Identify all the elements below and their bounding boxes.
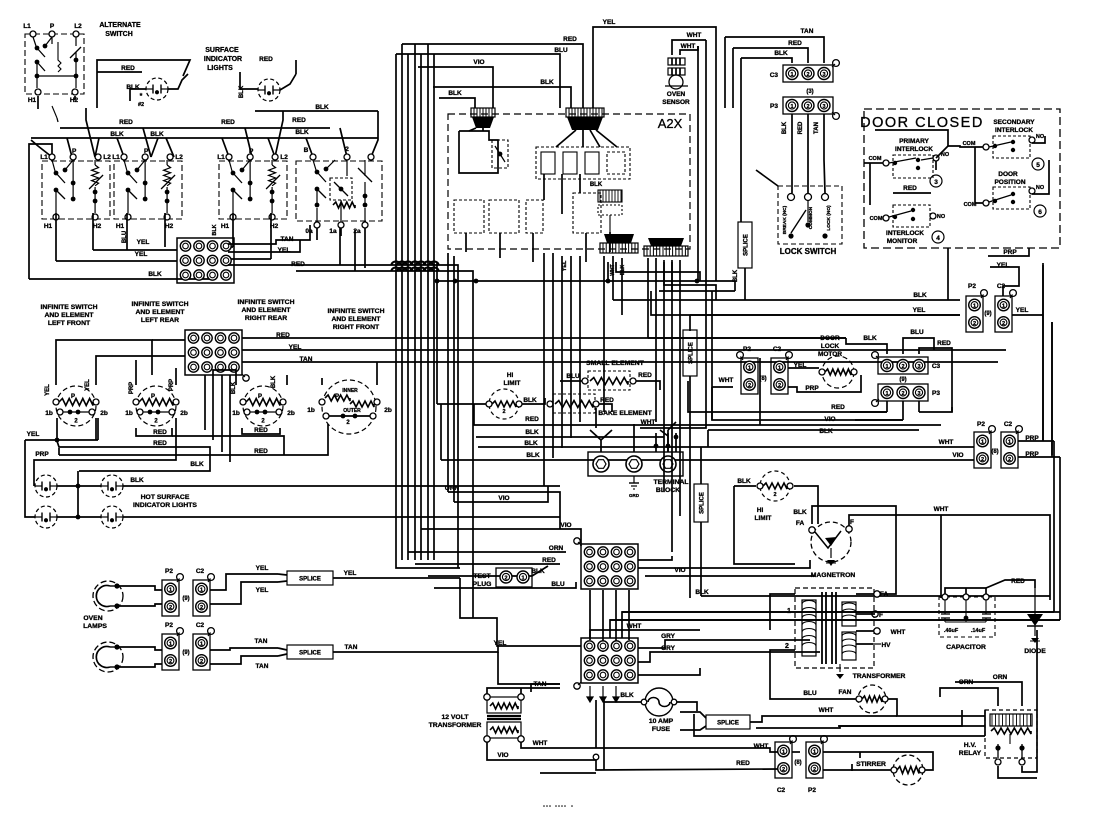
- wire 12v top: [487, 688, 560, 694]
- svg-text:RED: RED: [831, 404, 845, 411]
- clock connector header 1: [471, 108, 495, 128]
- svg-text:FA: FA: [880, 591, 889, 598]
- svg-text:2: 2: [785, 643, 789, 650]
- label gry1: [661, 633, 676, 640]
- svg-text:RED: RED: [1011, 578, 1025, 585]
- wire tan top right: [725, 37, 824, 108]
- svg-text:RED: RED: [221, 119, 235, 126]
- label yel dlm: [794, 362, 807, 369]
- svg-text:H1: H1: [116, 223, 125, 230]
- label C2 lamp1: [196, 568, 205, 575]
- label lock switch: [780, 247, 837, 256]
- svg-text:VIO: VIO: [498, 495, 509, 502]
- oven lamp 1: [93, 581, 123, 611]
- clock relay K2: [492, 140, 508, 168]
- label secondary interlock: [993, 119, 1035, 134]
- wire c4 drops: [317, 228, 365, 268]
- svg-text:LIGHTS: LIGHTS: [207, 65, 233, 72]
- wire j1 right: [638, 556, 1050, 596]
- label P2 br: [808, 787, 816, 794]
- svg-text:BLK: BLK: [913, 292, 927, 299]
- fan motor: [856, 685, 888, 713]
- wire bus blk2: [31, 137, 378, 139]
- svg-text:YEL: YEL: [256, 565, 269, 572]
- wire gry2: [638, 652, 820, 662]
- svg-text:DIODE: DIODE: [1024, 648, 1046, 655]
- label blu j1: [551, 581, 565, 588]
- label hot surface lights: [133, 494, 197, 509]
- connector C2 lamp1: [193, 574, 214, 616]
- svg-text:SPLICE: SPLICE: [717, 721, 739, 727]
- svg-text:TAN: TAN: [814, 122, 820, 134]
- wire hv left links: [852, 752, 860, 771]
- svg-text:INDICATOR LIGHTS: INDICATOR LIGHTS: [133, 502, 197, 509]
- svg-text:NO: NO: [1036, 185, 1045, 191]
- svg-text:WHT: WHT: [891, 629, 906, 636]
- artifact dots bottom: [543, 805, 573, 807]
- label red j1: [542, 557, 556, 564]
- svg-text:L2: L2: [280, 154, 288, 161]
- svg-text:INNER: INNER: [342, 388, 358, 394]
- label yel rm: [913, 307, 926, 314]
- svg-text:1a: 1a: [329, 228, 337, 235]
- svg-text:COM: COM: [963, 141, 976, 147]
- svg-text:HOT SURFACE: HOT SURFACE: [141, 494, 190, 501]
- label oven lamps: [83, 615, 107, 630]
- svg-text:BLK: BLK: [295, 129, 309, 136]
- svg-text:1: 1: [1008, 439, 1011, 445]
- circled 3: [930, 175, 942, 187]
- surface element left front: [45, 386, 108, 426]
- svg-text:INFINITE SWITCH: INFINITE SWITCH: [327, 308, 384, 315]
- wire p3 left blk: [708, 429, 919, 431]
- svg-text:F: F: [850, 519, 854, 526]
- wire lamp1 right: [210, 574, 278, 604]
- hv transformer: [785, 588, 874, 668]
- wire fan blu: [770, 656, 795, 699]
- svg-text:ORN: ORN: [445, 485, 460, 492]
- label P2 lamp1: [165, 568, 173, 575]
- wire tan: [228, 225, 310, 244]
- svg-text:BLK: BLK: [793, 509, 807, 516]
- svg-text:.46uF: .46uF: [944, 628, 959, 634]
- label bus blk: [315, 104, 329, 111]
- label yel left: [27, 431, 40, 438]
- wire DS1 right: [168, 74, 188, 89]
- label star: [138, 93, 144, 108]
- svg-text:YEL: YEL: [562, 260, 568, 271]
- connector P2 lamp1: [162, 574, 183, 616]
- svg-text:BLK: BLK: [190, 461, 204, 468]
- label wht s4: [819, 707, 834, 714]
- svg-text:RED: RED: [563, 36, 577, 43]
- svg-text:H1: H1: [44, 223, 53, 230]
- label no pri: [941, 152, 950, 158]
- svg-text:BLK: BLK: [130, 477, 144, 484]
- wire j2 bottom: [587, 686, 619, 702]
- svg-text:BLU: BLU: [566, 373, 580, 380]
- svg-text:P: P: [72, 148, 77, 155]
- svg-text:TAN: TAN: [255, 638, 268, 645]
- svg-text:BAKE ELEMENT: BAKE ELEMENT: [598, 410, 652, 417]
- svg-text:INDICATOR: INDICATOR: [204, 56, 242, 63]
- svg-text:P: P: [144, 148, 149, 155]
- test plug: [473, 568, 532, 588]
- wire hl2: [734, 486, 818, 564]
- capacitor box: [939, 594, 995, 637]
- label prp b1: [129, 382, 135, 394]
- wire lamp1: [117, 586, 162, 606]
- svg-text:2: 2: [169, 605, 172, 611]
- label A2X: [658, 116, 683, 131]
- svg-text:#2: #2: [138, 102, 144, 108]
- wire red link 338: [648, 337, 846, 339]
- svg-text:C2: C2: [1004, 421, 1013, 428]
- label blu vertical: [122, 231, 128, 243]
- label oven sensor: [662, 91, 690, 106]
- label prp dlm: [805, 385, 819, 392]
- wire oven sensor wht1: [672, 40, 706, 55]
- svg-text:STIRRER: STIRRER: [856, 761, 886, 768]
- svg-text:1: 1: [169, 587, 172, 593]
- svg-text:COM: COM: [870, 216, 883, 222]
- label yel lower: [494, 640, 507, 647]
- svg-text:2: 2: [200, 605, 203, 611]
- wire DS2 right: [280, 74, 296, 90]
- wire orn left: [448, 492, 560, 529]
- label blk j1: [531, 568, 545, 575]
- svg-text:PRP: PRP: [169, 379, 175, 391]
- svg-text:2: 2: [973, 321, 976, 327]
- svg-text:L1: L1: [217, 154, 225, 161]
- svg-text:P2: P2: [165, 622, 173, 629]
- label blk b2: [271, 375, 277, 388]
- svg-text:DOOR CLOSED: DOOR CLOSED: [860, 115, 984, 131]
- hot surface indicator light 3: [35, 506, 57, 528]
- wire blk fuse: [604, 692, 643, 702]
- svg-text:WHT: WHT: [610, 264, 616, 275]
- label prp r2a: [1025, 435, 1039, 442]
- svg-text:1: 1: [200, 641, 203, 647]
- svg-text:BLK: BLK: [126, 84, 140, 91]
- label red grid: [276, 332, 290, 339]
- svg-text:.14uF: .14uF: [971, 628, 986, 634]
- svg-text:RED: RED: [788, 40, 802, 47]
- svg-text:CAPACITOR: CAPACITOR: [946, 644, 986, 651]
- svg-text:2: 2: [773, 492, 776, 498]
- secondary interlock switch: [983, 136, 1035, 158]
- clock small transformer: [598, 190, 622, 232]
- wire red r2: [296, 230, 473, 618]
- wire sensor right: [640, 40, 706, 428]
- label capacitor: [946, 644, 986, 651]
- svg-text:1: 1: [973, 303, 976, 309]
- label P3 top: [770, 103, 778, 110]
- svg-text:3: 3: [934, 179, 938, 186]
- wire yel r1: [1012, 314, 1043, 316]
- splice S3 tan: [255, 638, 333, 670]
- label vio r2: [952, 452, 963, 459]
- svg-text:2: 2: [901, 391, 904, 397]
- label red top: [563, 36, 577, 43]
- connector C2 r2: [1001, 426, 1022, 468]
- label tan 12v: [0, 0, 1, 1]
- wire prp r2: [1043, 263, 1052, 457]
- wire splice s2: [689, 376, 691, 598]
- wire dlm prp: [788, 375, 861, 392]
- label yel top: [603, 19, 616, 26]
- svg-text:LOCK SWITCH: LOCK SWITCH: [780, 247, 837, 256]
- wire under grid P4: [205, 375, 230, 462]
- clock bottom connector 2: [644, 238, 688, 256]
- svg-text:AND ELEMENT: AND ELEMENT: [331, 316, 381, 323]
- svg-text:2b: 2b: [180, 410, 188, 417]
- wire a2x drops left: [544, 253, 580, 486]
- svg-text:PRP: PRP: [805, 385, 819, 392]
- diode D1: [1027, 588, 1043, 643]
- svg-text:DOOR: DOOR: [998, 171, 1018, 178]
- wire bus red: [60, 127, 330, 129]
- svg-text:INTERLOCK: INTERLOCK: [895, 146, 933, 153]
- svg-text:BLK: BLK: [819, 428, 833, 435]
- svg-text:BLK: BLK: [737, 478, 751, 485]
- label blk hl: [523, 397, 537, 404]
- svg-text:LOCK (NO): LOCK (NO): [826, 205, 832, 231]
- svg-text:ORN: ORN: [549, 545, 564, 552]
- svg-text:1: 1: [748, 365, 751, 371]
- svg-text:OVEN: OVEN: [83, 615, 102, 622]
- wire hv bottom: [998, 630, 1037, 778]
- label red se: [638, 372, 652, 379]
- label blk c3: [863, 335, 877, 342]
- label infinite switch right rear: [237, 299, 294, 322]
- connector C2 r1: [995, 290, 1016, 332]
- svg-text:BLK: BLK: [774, 50, 788, 57]
- wire red r: [228, 228, 458, 568]
- hi limit 1: [486, 389, 522, 419]
- label door closed: [860, 115, 984, 131]
- svg-text:INTERLOCK: INTERLOCK: [886, 230, 924, 237]
- connector P2 r1: [966, 290, 987, 332]
- label prp left: [35, 451, 49, 458]
- wire vio grid: [421, 529, 581, 546]
- wire j1 left feeds: [408, 552, 576, 588]
- wire tan sb: [333, 644, 498, 652]
- label tan tr: [801, 28, 814, 35]
- label C2 dlm: [773, 346, 782, 353]
- svg-text:1: 1: [1002, 303, 1005, 309]
- surface element right rear: [232, 386, 295, 426]
- label blu se: [566, 373, 580, 380]
- label wht vert a2x: [610, 264, 616, 275]
- svg-text:RED: RED: [937, 340, 951, 347]
- label door position: [994, 171, 1025, 186]
- svg-text:2: 2: [1008, 457, 1011, 463]
- infinite switch surface unit 1: [40, 148, 111, 230]
- label (9) r1: [984, 311, 991, 317]
- svg-text:BLOCK: BLOCK: [656, 487, 680, 494]
- label orn hv2: [993, 674, 1008, 681]
- label red mid: [525, 416, 539, 423]
- label yel row1: [137, 239, 150, 246]
- label blu fan: [803, 690, 817, 697]
- svg-text:WHT: WHT: [687, 32, 702, 39]
- svg-text:VIO: VIO: [560, 522, 571, 529]
- wire j2 drop rails: [596, 700, 604, 770]
- svg-text:RELAY: RELAY: [959, 750, 982, 757]
- clock connector header 2: [566, 108, 604, 130]
- label com mon: [870, 216, 883, 222]
- label blk top3: [448, 90, 462, 97]
- wire be: [599, 404, 612, 412]
- svg-text:YEL: YEL: [603, 19, 616, 26]
- svg-text:POSITION: POSITION: [994, 179, 1025, 186]
- svg-text:F: F: [879, 612, 883, 619]
- label diode: [1024, 648, 1046, 655]
- svg-text:2: 2: [806, 72, 809, 78]
- label fan: [839, 689, 852, 696]
- svg-text:SWITCH: SWITCH: [105, 31, 133, 38]
- wire left drop: [29, 144, 165, 279]
- svg-text:FAN: FAN: [839, 689, 852, 696]
- infinite switch surface unit 3: [217, 148, 288, 230]
- connector grid P4: [185, 330, 249, 381]
- label yel vert a2x: [562, 260, 568, 271]
- label com dp: [964, 202, 977, 208]
- svg-text:BLK: BLK: [315, 104, 329, 111]
- label P2 lamp2: [165, 622, 173, 629]
- wire 12v tan label: [534, 681, 547, 688]
- svg-text:LIMIT: LIMIT: [504, 380, 521, 387]
- svg-text:SPLICE: SPLICE: [299, 577, 321, 583]
- label wht1: [687, 32, 702, 39]
- label (9) lamp1: [182, 596, 189, 602]
- wire burner feeds: [56, 340, 377, 385]
- svg-text:WHT: WHT: [681, 43, 696, 50]
- bake element: [547, 394, 599, 413]
- svg-text:P: P: [335, 394, 339, 400]
- wire cap top: [945, 588, 986, 594]
- svg-text:PRP: PRP: [129, 382, 135, 394]
- wire grid right red: [242, 337, 846, 339]
- svg-text:RED: RED: [254, 427, 268, 434]
- svg-text:BLK: BLK: [620, 264, 626, 275]
- wire blk mid3: [441, 459, 974, 461]
- svg-text:RIGHT REAR: RIGHT REAR: [245, 315, 287, 322]
- svg-text:SECONDARY: SECONDARY: [993, 119, 1035, 126]
- wire blk DS2 down: [295, 60, 297, 74]
- svg-text:1: 1: [200, 587, 203, 593]
- hot surface indicator light 2: [101, 475, 123, 497]
- svg-text:C3: C3: [770, 72, 779, 79]
- svg-text:12 VOLT: 12 VOLT: [441, 714, 469, 721]
- ground symbol tb: [629, 476, 640, 498]
- wire grid right tan: [242, 361, 998, 363]
- connector grid J1: [574, 538, 638, 589]
- wire 12v bottom wht: [521, 740, 779, 752]
- connector C3 top: [783, 60, 839, 82]
- svg-text:1: 1: [778, 365, 781, 371]
- label infinite switch left front: [40, 304, 97, 327]
- connector C2 br: [775, 736, 796, 778]
- svg-text:RED: RED: [153, 440, 167, 447]
- wire blk bottom: [57, 441, 210, 471]
- svg-text:PRIMARY: PRIMARY: [899, 138, 929, 145]
- svg-text:P2: P2: [808, 787, 816, 794]
- wire red row2: [95, 418, 97, 440]
- door lock motor: [819, 356, 857, 388]
- label bus red3: [292, 117, 306, 124]
- connector P2 r2: [974, 426, 995, 468]
- svg-text:P2: P2: [968, 283, 976, 290]
- svg-text:H2: H2: [93, 223, 102, 230]
- hv relay: [985, 710, 1037, 765]
- label transformer: [853, 673, 906, 680]
- wire right rail 1054: [622, 441, 1054, 612]
- svg-text:HI: HI: [507, 372, 514, 379]
- svg-text:(8): (8): [991, 449, 998, 455]
- svg-text:BLU: BLU: [803, 690, 817, 697]
- svg-text:YEL: YEL: [494, 640, 507, 647]
- wire below door box: [948, 248, 1029, 300]
- wire bus blk top: [255, 110, 378, 112]
- wire yel lower: [460, 578, 581, 646]
- wire yel r: [228, 240, 300, 252]
- svg-text:1: 1: [885, 391, 888, 397]
- wire yel top: [593, 27, 716, 281]
- hot surface indicator light 4: [101, 506, 123, 528]
- label infinite switch left rear: [131, 301, 188, 324]
- wire lock feeds: [756, 170, 778, 186]
- label P2 r2: [977, 421, 985, 428]
- wire prp left: [34, 418, 176, 486]
- svg-text:NO: NO: [937, 214, 946, 220]
- svg-text:YEL: YEL: [135, 251, 148, 258]
- wire hl2 down: [817, 508, 819, 524]
- svg-text:YEL: YEL: [1016, 307, 1029, 314]
- svg-text:RIGHT FRONT: RIGHT FRONT: [333, 324, 380, 331]
- svg-text:SPLICE: SPLICE: [744, 234, 750, 256]
- svg-text:B: B: [304, 147, 309, 154]
- svg-text:ALTERNATE: ALTERNATE: [99, 22, 141, 29]
- label infinite switch right front: [327, 308, 384, 331]
- svg-text:WHT: WHT: [939, 439, 954, 446]
- connector P2 br: [806, 736, 827, 778]
- wire mag wht right: [940, 515, 942, 598]
- label no sec: [1036, 134, 1045, 140]
- wire mag f wht: [849, 515, 941, 526]
- label red tr: [788, 40, 802, 47]
- oven lamp 2: [93, 642, 123, 672]
- svg-text:TRANSFORMER: TRANSFORMER: [429, 722, 482, 729]
- svg-text:ORN: ORN: [993, 674, 1008, 681]
- label 12 volt transformer: [429, 714, 482, 729]
- label tan r: [281, 236, 294, 243]
- svg-text:2: 2: [502, 409, 505, 415]
- label blk v1: [782, 121, 788, 134]
- wire red top: [402, 44, 583, 108]
- label vio top: [473, 59, 484, 66]
- svg-text:INTERLOCK: INTERLOCK: [995, 127, 1033, 134]
- interlock monitor switch: [883, 205, 936, 227]
- svg-text:PRP: PRP: [1003, 249, 1017, 256]
- svg-text:RED: RED: [292, 117, 306, 124]
- wire red bottom: [540, 760, 779, 773]
- svg-text:YEL: YEL: [27, 431, 40, 438]
- svg-text:(9): (9): [182, 650, 189, 656]
- wire right verticals: [1043, 265, 1052, 455]
- wire cap enclosure: [941, 515, 1050, 560]
